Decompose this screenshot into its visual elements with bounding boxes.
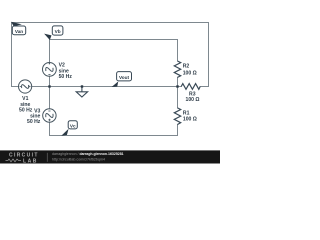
svg-text:50 Hz: 50 Hz [27,119,41,125]
svg-text:50 Hz: 50 Hz [59,74,73,80]
resistor R3 [181,84,200,90]
V2 value label [59,63,73,80]
svg-text:R2: R2 [183,63,190,69]
voltage source V2 [43,63,57,77]
svg-text:100 Ω: 100 Ω [186,97,200,103]
flag pole Van [11,22,22,27]
footer credit line 1 [52,152,124,156]
net label Van [12,26,25,35]
svg-text:Vb: Vb [55,29,61,34]
svg-text:Van: Van [15,29,23,34]
flag pole Vb [44,34,51,40]
net label Vout [117,72,132,81]
R1 value label [183,111,197,123]
net label Vb [52,26,63,35]
svg-text:http://circuitlab.com/c/7kf62b: http://circuitlab.com/c/7kf62bqm4 [52,158,105,162]
resistor R2 [174,61,180,77]
wire V3 bottom lead [49,122,51,135]
wire Vb horizontal [50,39,178,41]
wire R2 bottom lead [177,77,179,86]
svg-text:darraghglennon / darragh.glenn: darraghglennon / darragh.glennon.1632528… [52,152,124,156]
wire R1 bottom lead [177,125,179,136]
wire top (Van net) [12,22,209,24]
wire R1 top lead [177,87,179,108]
svg-text:100 Ω: 100 Ω [183,71,197,77]
voltage source V3 [43,109,56,122]
net label Vc [68,121,77,129]
resistor R1 [174,108,180,125]
R3 value label [186,91,200,103]
V3 value label [27,109,41,126]
svg-text:Vc: Vc [70,123,76,128]
footer logo resistor squiggle [6,159,22,162]
footer credit line 2 [52,158,105,162]
junction dot ground bus [81,85,83,87]
wire left vertical [11,23,13,87]
wire V2 top lead [49,40,51,63]
junction dot V2/V3 bus [48,85,50,87]
V1 value label [19,96,33,114]
wire R3 leads [178,86,209,88]
svg-text:Vout: Vout [119,75,130,80]
wire right vertical [208,23,210,87]
flag pole Vout [112,81,119,87]
wire bottom (Vc net) [50,135,178,137]
svg-text:100 Ω: 100 Ω [183,117,197,123]
R2 value label [183,63,197,76]
junction dot R column bus [176,85,178,87]
wire middle bus [12,86,178,88]
voltage source V1 [19,80,32,93]
ground [76,87,87,98]
svg-text:R1: R1 [183,111,190,117]
wire R2 top lead [177,40,179,62]
footer bar [0,150,220,163]
footer separator [46,153,48,162]
wire V3 top lead [49,87,51,109]
wire V2 bottom lead [49,76,51,86]
svg-text:LAB: LAB [23,158,38,164]
flag pole Vc [61,129,68,136]
